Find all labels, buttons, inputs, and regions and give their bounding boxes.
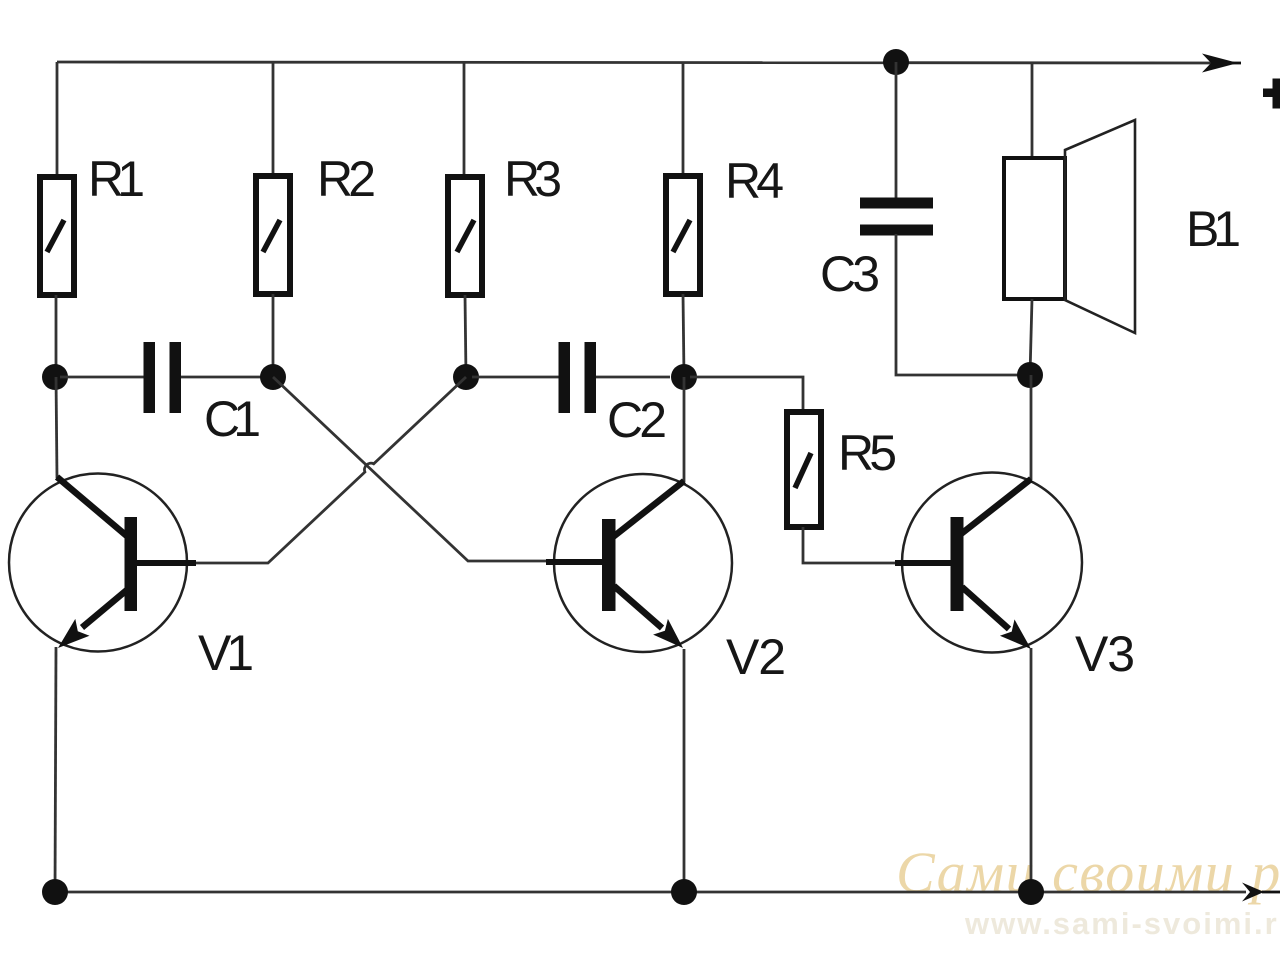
wire R5 bottom to V3 base <box>803 527 896 563</box>
svg-text:C2: C2 <box>607 392 667 448</box>
resistor R1 <box>40 177 74 295</box>
wire bottom ground rail <box>55 891 1246 894</box>
node V1 collector junction <box>42 364 68 390</box>
transistor V3 <box>895 473 1082 653</box>
wire C3 bottom to V3 collector node <box>896 234 1030 375</box>
svg-text:R5: R5 <box>838 425 897 481</box>
wire top power rail <box>57 62 1233 63</box>
wire rail to C3 top plate <box>895 62 898 199</box>
speaker B1 <box>1004 120 1135 333</box>
resistor R4 <box>666 176 700 294</box>
arrow bottom rail right end <box>1242 883 1280 902</box>
wire R2 bottom lead <box>272 294 275 377</box>
node C2-R4 junction <box>671 364 697 390</box>
wire V1 emitter to ground rail <box>55 647 56 892</box>
capacitor C2 <box>559 342 597 413</box>
svg-text:V1: V1 <box>198 625 254 681</box>
wire R2 top lead <box>272 62 275 176</box>
node bottom rail left <box>42 879 68 905</box>
wire R4 top lead <box>682 62 685 175</box>
svg-text:B1: B1 <box>1186 201 1241 257</box>
wire C2 right plate to node <box>596 376 670 379</box>
svg-text:C1: C1 <box>204 391 261 447</box>
power label + <box>1263 79 1280 109</box>
wire node to V3 collector <box>1030 375 1033 480</box>
wire R4 bottom lead <box>683 294 684 377</box>
capacitor C3 <box>860 198 933 236</box>
wire V2 collector lead <box>683 377 686 482</box>
wire C1 right plate to node <box>181 376 266 379</box>
node top rail C3 junction <box>883 49 909 75</box>
resistor R2 <box>256 176 290 294</box>
resistor R5 <box>787 412 821 527</box>
transistor V2 <box>546 474 732 652</box>
node bottom rail V2 emitter <box>671 879 697 905</box>
wire speaker to V3 collector node <box>1030 299 1032 375</box>
svg-text:C3: C3 <box>820 246 880 302</box>
wire rail to speaker <box>1031 62 1034 158</box>
wire C2 node to left plate <box>472 376 559 379</box>
wire V3 emitter to ground rail <box>1030 648 1033 892</box>
transistor V1 <box>9 474 196 652</box>
capacitor C1 <box>144 342 182 413</box>
wire R3 bottom lead <box>465 295 466 377</box>
svg-text:R2: R2 <box>317 151 376 207</box>
svg-text:V3: V3 <box>1075 626 1135 682</box>
wire cross-coupling C2 node to V1 base <box>195 377 466 563</box>
svg-text:V2: V2 <box>726 629 786 685</box>
arrow top rail right end <box>1202 54 1241 73</box>
node bottom rail V3 emitter <box>1018 879 1044 905</box>
resistor R3 <box>448 177 482 295</box>
svg-text:Сами своими р: Сами своими р <box>896 840 1280 905</box>
wire R3 top lead <box>463 62 466 176</box>
svg-text:R4: R4 <box>725 153 784 209</box>
wire cross-coupling C1 node to V2 base <box>273 377 546 561</box>
wire node to R5 top <box>690 377 803 411</box>
node C1-R2 junction <box>260 364 286 390</box>
wire V2 emitter to ground rail <box>683 649 686 892</box>
node C2-R3 junction <box>453 364 479 390</box>
svg-text:R1: R1 <box>88 151 145 207</box>
wire node to V1 collector <box>56 377 57 478</box>
svg-text:R3: R3 <box>504 151 562 207</box>
wire R1 top lead <box>56 62 59 176</box>
wire node to C1 left plate <box>60 376 144 379</box>
node V3 collector junction <box>1017 362 1043 388</box>
svg-text:www.sami-svoimi.ru: www.sami-svoimi.ru <box>964 906 1280 941</box>
wire R1 bottom lead <box>55 295 58 377</box>
